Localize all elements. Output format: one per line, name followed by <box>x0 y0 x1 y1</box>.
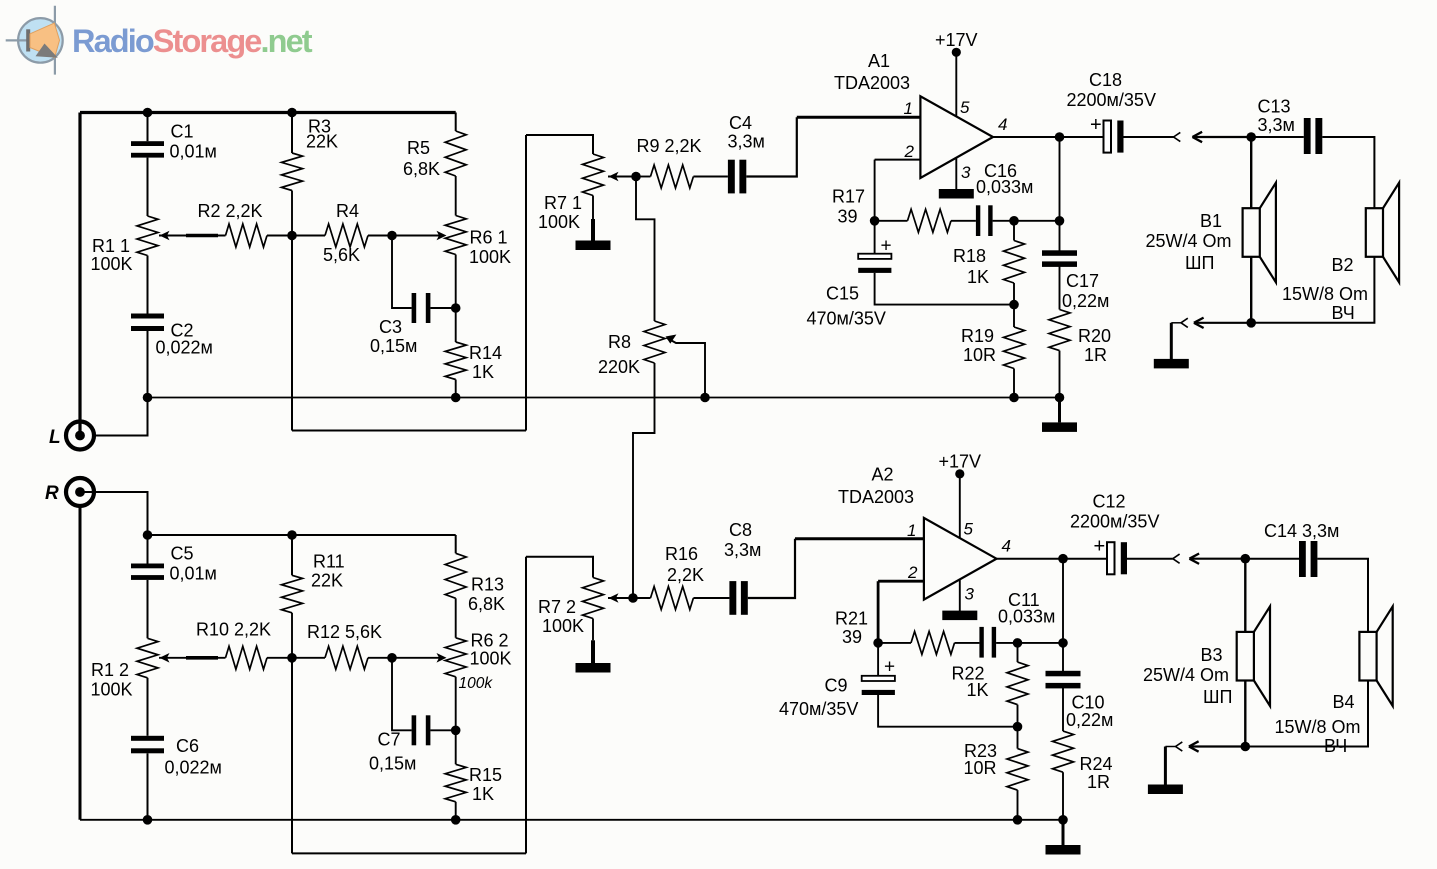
svg-text:R11: R11 <box>313 552 345 572</box>
svg-text:1K: 1K <box>472 784 494 804</box>
wire to R7 top <box>526 135 593 154</box>
junction C16 / R18 <box>1009 216 1019 226</box>
wire C9 top <box>877 643 879 676</box>
wire R21 to C11 <box>955 642 980 644</box>
wire R17 left <box>875 220 908 222</box>
wire speaker return arrow R <box>1190 745 1246 747</box>
potentiometer R7 1 100K <box>583 154 604 196</box>
svg-text:100K: 100K <box>91 254 133 274</box>
wire R11 top <box>291 535 293 575</box>
svg-text:C12: C12 <box>1093 492 1126 512</box>
resistor R4 5,6K <box>325 224 368 247</box>
svg-text:C5: C5 <box>171 544 194 564</box>
wire R8 bottom to lower channel <box>633 363 655 598</box>
resistor R13 6,8K <box>445 553 466 598</box>
wire C14 to B4 <box>1317 559 1368 632</box>
svg-text:100K: 100K <box>470 648 512 668</box>
wire C17 to R20 <box>1059 266 1061 309</box>
wire C4 to pin1 corner <box>746 117 797 176</box>
svg-text:470м/35V: 470м/35V <box>807 309 886 329</box>
resistor R17 39 <box>908 209 952 232</box>
svg-text:1R: 1R <box>1087 772 1110 792</box>
resistor R11 22K <box>282 575 303 613</box>
svg-text:R15: R15 <box>469 765 502 785</box>
wire C11 to R22 node <box>996 642 1017 644</box>
capacitor C6 <box>131 736 164 741</box>
junction C6 / ground rail <box>143 815 153 825</box>
svg-text:R: R <box>45 483 59 504</box>
capacitor C1 <box>131 141 164 146</box>
svg-text:100k: 100k <box>459 675 494 692</box>
connector R jack <box>66 478 94 506</box>
wire R23 top <box>1017 727 1019 749</box>
resistor R23 10R <box>1007 749 1028 791</box>
svg-text:C9: C9 <box>825 676 848 696</box>
svg-text:R1 2: R1 2 <box>91 660 129 680</box>
svg-text:0,22м: 0,22м <box>1066 710 1113 730</box>
svg-text:0,15м: 0,15м <box>370 336 417 356</box>
wire C5 to R1 2 <box>147 580 149 638</box>
junction R7 wiper / R9 / R8 branch <box>631 172 641 182</box>
junction output column / feedback <box>1055 216 1065 226</box>
svg-text:0,022м: 0,022м <box>156 338 213 358</box>
junction C7 / R6 2 column <box>451 726 461 736</box>
connector arrow top R <box>1189 554 1199 559</box>
logo transistor icon circle <box>18 18 63 63</box>
wire jack shield to ground rail <box>96 398 148 436</box>
wire B4 column bottom <box>1245 681 1368 747</box>
svg-text:B4: B4 <box>1333 692 1355 712</box>
resistor R21 39 <box>911 631 955 654</box>
power +17V A1 <box>952 48 961 57</box>
svg-text:C8: C8 <box>729 520 752 540</box>
wire R23 to ground rail <box>1017 790 1019 820</box>
connector L jack <box>66 422 94 450</box>
wire C2 to ground rail <box>147 331 149 398</box>
wire R8 wiper to ground rail <box>667 338 705 398</box>
svg-text:1: 1 <box>907 521 916 540</box>
wire pin 1 input <box>797 116 921 119</box>
svg-text:B2: B2 <box>1332 255 1354 275</box>
svg-text:ШП: ШП <box>1203 687 1232 707</box>
wire R12 left <box>292 657 325 659</box>
resistor R15 1K <box>445 764 466 802</box>
wire R6 2 to R15 through C7 node <box>455 677 457 765</box>
wire mid-node bottom run (bottom channel) <box>292 852 526 854</box>
junction top rail / R3 <box>287 108 297 118</box>
junction R14 / ground rail <box>451 393 461 403</box>
wire R10 right <box>267 657 292 659</box>
wire volume box left edge up <box>525 135 527 431</box>
junction speaker return L <box>1246 318 1256 328</box>
node ground rail (bottom) <box>80 819 1063 821</box>
wire R1 2 wiper <box>159 657 226 659</box>
capacitor C15 polarized <box>858 254 891 259</box>
resistor R24 1R <box>1053 731 1074 772</box>
svg-text:+: + <box>884 657 895 678</box>
wire R20 to ground rail <box>1059 351 1061 398</box>
svg-text:39: 39 <box>838 207 858 227</box>
svg-text:R24: R24 <box>1080 754 1113 774</box>
wire R16 left <box>633 597 651 599</box>
svg-text:2200м/35V: 2200м/35V <box>1067 90 1156 110</box>
svg-text:L: L <box>49 427 61 448</box>
svg-text:6,8K: 6,8K <box>468 594 505 614</box>
wire R19 to ground rail <box>1013 369 1015 398</box>
wire pin 1 input (A2) <box>795 537 924 540</box>
svg-text:R9 2,2K: R9 2,2K <box>637 136 702 156</box>
capacitor C9 polarized <box>862 676 895 681</box>
svg-text:0,022м: 0,022м <box>165 758 222 778</box>
ground R7 2 <box>591 640 595 663</box>
resistor R19 10R <box>1004 327 1025 369</box>
capacitor C13 <box>1304 118 1311 154</box>
wire C16 to R18 node <box>993 220 1014 222</box>
wire R7 to ground <box>592 196 594 220</box>
svg-text:100K: 100K <box>91 680 133 700</box>
svg-text:C6: C6 <box>176 736 199 756</box>
svg-text:TDA2003: TDA2003 <box>834 73 910 93</box>
svg-text:2,2K: 2,2K <box>667 565 704 585</box>
wire B3 column bottom <box>1244 681 1246 747</box>
svg-text:2: 2 <box>907 563 918 582</box>
svg-text:1K: 1K <box>472 362 494 382</box>
wire C15 top <box>874 221 876 254</box>
svg-text:5: 5 <box>964 520 974 539</box>
wire C13 to B2 <box>1322 137 1374 208</box>
wire R18 bottom <box>1013 283 1015 305</box>
svg-text:R6 1: R6 1 <box>470 228 508 248</box>
logo transistor base lead <box>6 39 30 41</box>
wire R14 to ground rail <box>455 380 457 398</box>
wire R15 to ground rail <box>455 802 457 820</box>
svg-text:R16: R16 <box>665 544 698 564</box>
junction R2/R3/R4 <box>287 231 297 241</box>
svg-text:1K: 1K <box>967 267 989 287</box>
wire R21 left <box>878 642 911 644</box>
resistor R16 2,2K <box>651 587 694 610</box>
wire speaker return arrow L <box>1195 322 1252 324</box>
svg-text:2200м/35V: 2200м/35V <box>1070 512 1159 532</box>
resistor R22 1K <box>1007 662 1028 705</box>
speaker B3 <box>1237 632 1254 681</box>
svg-text:0,22м: 0,22м <box>1062 291 1109 311</box>
wire output pin 4 (A2) <box>997 558 1064 560</box>
svg-text:25W/4 Om: 25W/4 Om <box>1146 231 1232 251</box>
speaker B2 <box>1366 208 1383 257</box>
capacitor C18 polarized <box>1104 121 1112 153</box>
wire R7 2 wiper <box>608 597 633 599</box>
wire C10 to R24 <box>1062 688 1064 731</box>
wire B1 column bottom <box>1250 257 1252 323</box>
wire C7 right <box>430 729 455 731</box>
resistor R2 2,2K <box>226 224 268 247</box>
wire left drop to L jack <box>78 113 81 432</box>
junction speaker return R <box>1241 742 1251 752</box>
capacitor C10 <box>1046 671 1081 677</box>
svg-text:4: 4 <box>1002 537 1011 556</box>
wire R1 wiper <box>159 235 226 237</box>
wire C9 bottom to R22/R23 node <box>878 695 1017 727</box>
wire B2 column bottom <box>1251 257 1374 323</box>
svg-text:R18: R18 <box>953 246 986 266</box>
svg-text:100K: 100K <box>538 212 580 232</box>
svg-text:0,033м: 0,033м <box>998 607 1055 627</box>
ground speaker return L <box>1170 323 1173 360</box>
wire output column down (A2) <box>1062 559 1064 673</box>
svg-text:25W/4 Om: 25W/4 Om <box>1143 665 1229 685</box>
logo transistor orange wedge <box>30 23 60 58</box>
svg-text:220K: 220K <box>598 357 640 377</box>
node R21 feedback junction <box>873 638 883 648</box>
wire R2 right <box>267 235 292 237</box>
wire C6 to ground rail <box>147 753 149 820</box>
op-amp A2 TDA2003 <box>924 518 997 600</box>
wire R9 left <box>636 176 651 178</box>
svg-text:R7 2: R7 2 <box>538 597 576 617</box>
svg-text:10R: 10R <box>963 345 996 365</box>
svg-text:0,01м: 0,01м <box>170 142 217 162</box>
resistor R14 1K <box>445 342 466 380</box>
svg-text:R2 2,2K: R2 2,2K <box>198 201 263 221</box>
wire R6 2 wiper arrow <box>392 657 443 659</box>
wire R jack signal to rail <box>80 492 148 535</box>
svg-text:22K: 22K <box>311 571 343 591</box>
junction speaker feed R <box>1241 554 1251 564</box>
capacitor C2 <box>131 314 164 319</box>
wire pin 2 stub (A2) <box>878 580 924 583</box>
resistor R12 5,6K <box>325 646 368 669</box>
wire R jack shield down <box>79 507 82 820</box>
junction R22/R23/C9 <box>1013 722 1023 732</box>
wire pin 3 to ground <box>955 159 957 190</box>
wire R5 to R6 <box>455 176 457 216</box>
junction bottom rail / C5 <box>143 530 153 540</box>
capacitor C16 <box>976 205 980 236</box>
resistor R10 2,2K <box>226 646 268 669</box>
wire pin 2 feedback drop (A2) <box>877 581 880 643</box>
svg-text:R4: R4 <box>336 201 359 221</box>
wire R18 top <box>1013 221 1015 241</box>
svg-text:1K: 1K <box>967 680 989 700</box>
junction R19 / ground rail <box>1009 393 1019 403</box>
junction R23 / ground rail <box>1013 815 1023 825</box>
connector arrow top L <box>1192 132 1202 137</box>
svg-text:+17V: +17V <box>935 30 978 50</box>
logo transistor emitter arrowhead <box>36 44 58 58</box>
wire C7 left leg <box>392 658 412 731</box>
capacitor C12 polarized <box>1107 542 1115 574</box>
svg-text:+: + <box>1094 536 1106 558</box>
wire C8 to pin1 corner (A2) <box>748 539 795 598</box>
svg-text:R1 1: R1 1 <box>92 236 130 256</box>
speaker B1 <box>1243 208 1260 257</box>
ground output filter (A2) <box>1062 820 1065 845</box>
node ground rail (top) <box>148 397 1060 399</box>
svg-text:R12 5,6K: R12 5,6K <box>307 622 382 642</box>
potentiometer R1 1 <box>137 216 158 256</box>
wire R16 to C8 <box>693 597 729 599</box>
wire R8 branch down <box>636 177 655 322</box>
svg-text:C18: C18 <box>1089 70 1122 90</box>
wire R24 to ground rail <box>1062 772 1064 820</box>
wire C15 bottom to R18/R19 node <box>875 273 1014 305</box>
resistor R20 1R <box>1049 310 1070 351</box>
junction R18/R19/C15 <box>1009 300 1019 310</box>
junction speaker feed L <box>1246 132 1256 142</box>
wire C18 to connector <box>1124 136 1174 138</box>
svg-text:15W/8 Om: 15W/8 Om <box>1275 717 1361 737</box>
svg-text:0,15м: 0,15м <box>369 754 416 774</box>
speaker B4 <box>1359 632 1376 681</box>
wire volume box left edge up (bottom) <box>525 557 527 854</box>
connector plug return R <box>1176 742 1183 747</box>
capacitor C5 <box>131 564 164 569</box>
wire output to C12 <box>1063 558 1107 560</box>
wire bottom rail corner to R13 <box>455 535 457 553</box>
wire R22 top <box>1017 643 1019 662</box>
capacitor C7 <box>412 715 417 745</box>
svg-text:470м/35V: 470м/35V <box>779 699 858 719</box>
wire top rail corner to R5 <box>455 113 457 132</box>
wire R1 to C2 <box>147 256 149 314</box>
junction R15 / ground rail <box>451 815 461 825</box>
svg-text:+: + <box>881 236 892 257</box>
wire R17 to C16 <box>951 220 976 222</box>
svg-text:R20: R20 <box>1078 326 1111 346</box>
junction R7 2 wiper / R16 <box>628 593 638 603</box>
junction C3 / R6 column <box>451 303 461 313</box>
potentiometer R8 220K <box>644 321 665 363</box>
svg-text:ВЧ: ВЧ <box>1332 303 1355 323</box>
potentiometer R1 2 <box>137 638 158 678</box>
svg-text:TDA2003: TDA2003 <box>838 487 914 507</box>
op-amp A1 TDA2003 <box>920 96 993 178</box>
node R input rail (bottom) <box>148 534 456 536</box>
svg-text:C15: C15 <box>826 284 859 304</box>
wire C3 left leg <box>392 236 412 309</box>
junction C2 / ground rail <box>143 393 153 403</box>
wire mid-node down from R10/R12 junction <box>291 658 293 854</box>
wire R13 to R6 2 <box>455 598 457 638</box>
junction output node (A2) <box>1058 554 1068 564</box>
wire C12 to connector <box>1127 558 1173 560</box>
wire R3 top <box>291 113 293 154</box>
wire C13 left <box>1251 136 1304 138</box>
svg-text:2: 2 <box>904 142 915 161</box>
node R17 feedback junction <box>870 216 880 226</box>
junction R12/C7 <box>387 653 397 663</box>
connector plug return L <box>1181 318 1188 323</box>
wire output pin 4 <box>993 136 1060 138</box>
svg-text:C1: C1 <box>171 122 194 142</box>
wire R3 to junction <box>291 191 293 236</box>
capacitor C17 <box>1042 250 1077 256</box>
capacitor C11 <box>979 627 983 658</box>
wire to R7 2 top <box>526 557 593 578</box>
svg-text:+: + <box>1090 114 1102 136</box>
svg-text:C13: C13 <box>1258 97 1291 117</box>
potentiometer R7 2 100K <box>583 578 604 619</box>
wire C1 to R1 <box>147 158 149 216</box>
wire C3 right <box>430 307 455 309</box>
ground R7 1 <box>591 219 595 241</box>
svg-text:0,01м: 0,01м <box>170 564 217 584</box>
wire B3 column top <box>1244 559 1246 632</box>
wire R4 to junction <box>368 235 392 237</box>
wire R22 bottom <box>1017 705 1019 727</box>
wire R4 left <box>292 235 325 237</box>
capacitor C4 <box>728 160 735 194</box>
wire R11 to junction <box>291 613 293 658</box>
svg-text:B3: B3 <box>1201 645 1223 665</box>
svg-text:R10 2,2K: R10 2,2K <box>196 620 271 640</box>
resistor R3 22K <box>282 153 303 191</box>
svg-text:RadioStorage.net: RadioStorage.net <box>72 23 313 59</box>
svg-text:C7: C7 <box>378 730 401 750</box>
wire R6 wiper arrow <box>392 235 443 237</box>
wire pin 2 stub <box>875 159 921 161</box>
svg-text:C4: C4 <box>729 113 752 133</box>
wire C5 top <box>147 535 149 564</box>
svg-text:B1: B1 <box>1200 211 1222 231</box>
wire R18 node to output column <box>1014 220 1060 222</box>
svg-text:R21: R21 <box>835 609 868 629</box>
junction R24 / ground rail <box>1058 815 1068 825</box>
svg-text:3,3м: 3,3м <box>724 540 761 560</box>
svg-text:10R: 10R <box>964 758 997 778</box>
wire pin 3 to ground (A2) <box>959 580 961 611</box>
wire pin 2 feedback drop <box>874 160 876 221</box>
ground pin 3 A2 <box>942 611 977 621</box>
junction R20 / ground rail <box>1055 393 1065 403</box>
wire R12 to junction <box>368 657 392 659</box>
junction R10/R11/R12 <box>287 653 297 663</box>
ground output filter <box>1058 398 1061 423</box>
svg-text:A1: A1 <box>868 51 890 71</box>
junction R8 wiper / ground rail <box>700 393 710 403</box>
svg-text:4: 4 <box>998 115 1007 134</box>
resistor R5 6,8K <box>445 131 466 176</box>
wire B1 column top <box>1250 137 1252 208</box>
logo transistor base bar <box>26 29 30 51</box>
svg-text:R5: R5 <box>407 138 430 158</box>
svg-text:ШП: ШП <box>1185 253 1214 273</box>
wire R7 2 to ground <box>592 619 594 641</box>
wire output column down <box>1059 137 1061 251</box>
svg-text:R19: R19 <box>961 326 994 346</box>
wire mid-node bottom run <box>292 430 526 432</box>
svg-text:3,3м: 3,3м <box>1258 115 1295 135</box>
svg-text:R8: R8 <box>608 332 631 352</box>
wire R22 node to output column (A2) <box>1018 642 1064 644</box>
svg-text:C3: C3 <box>379 317 402 337</box>
svg-text:1R: 1R <box>1084 345 1107 365</box>
wire output to C18 <box>1060 136 1104 138</box>
resistor R18 1K <box>1004 241 1025 284</box>
svg-text:6,8K: 6,8K <box>403 159 440 179</box>
junction bottom rail / R11 <box>287 530 297 540</box>
svg-text:C14 3,3м: C14 3,3м <box>1264 521 1339 541</box>
wire R19 top <box>1013 305 1015 327</box>
logo transistor collector-emitter lead <box>54 6 56 75</box>
junction C11 / R22 <box>1013 638 1023 648</box>
resistor R9 2,2K <box>651 165 694 188</box>
svg-text:C17: C17 <box>1066 271 1099 291</box>
wire C14 left <box>1245 558 1299 560</box>
svg-text:3: 3 <box>961 163 971 182</box>
svg-text:39: 39 <box>842 627 862 647</box>
